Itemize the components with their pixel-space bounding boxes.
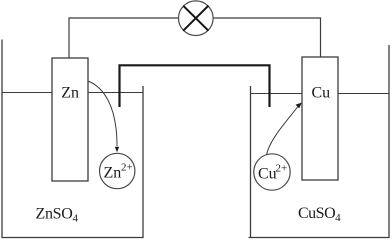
ion Cu2+ (254, 154, 290, 190)
arrow ion to Cu (267, 106, 299, 155)
electrode Zn (52, 58, 88, 181)
right beaker (249, 45, 390, 238)
arrow Zn to ion (88, 81, 117, 146)
solution level left (2, 92, 143, 94)
svg-text:Zn: Zn (104, 165, 122, 182)
svg-text:Cu: Cu (258, 166, 277, 183)
wire right (lamp to Cu electrode) (212, 18, 321, 57)
svg-text:ZnSO4: ZnSO4 (36, 206, 79, 225)
svg-text:Cu: Cu (312, 84, 331, 101)
salt bridge (120, 65, 270, 107)
ion Zn2+ (100, 153, 135, 188)
svg-text:Zn: Zn (61, 85, 79, 102)
left beaker (2, 40, 143, 238)
svg-text:2+: 2+ (121, 162, 133, 174)
solution level right (251, 93, 390, 95)
lamp (179, 1, 214, 36)
svg-text:CuSO4: CuSO4 (298, 205, 341, 224)
wire left (Zn electrode to lamp) (69, 18, 180, 58)
electrode Cu (302, 57, 338, 180)
svg-text:2+: 2+ (276, 163, 288, 175)
